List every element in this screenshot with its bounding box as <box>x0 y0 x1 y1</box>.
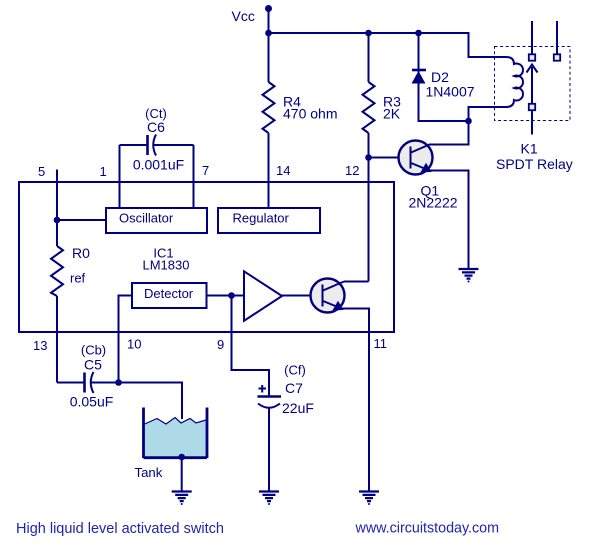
svg-text:www.circuitstoday.com: www.circuitstoday.com <box>355 521 500 537</box>
svg-text:C5: C5 <box>84 357 102 373</box>
svg-text:SPDT Relay: SPDT Relay <box>496 156 573 172</box>
svg-text:470 ohm: 470 ohm <box>283 106 337 122</box>
svg-text:C6: C6 <box>147 119 165 135</box>
svg-text:R0: R0 <box>72 245 90 261</box>
svg-text:11: 11 <box>374 336 388 351</box>
svg-text:2N2222: 2N2222 <box>409 195 458 211</box>
svg-text:(Cb): (Cb) <box>81 343 106 358</box>
svg-text:14: 14 <box>276 163 290 178</box>
svg-text:22uF: 22uF <box>282 400 314 416</box>
svg-text:1: 1 <box>100 164 107 179</box>
svg-text:0.05uF: 0.05uF <box>70 394 114 410</box>
svg-text:7: 7 <box>202 163 209 178</box>
svg-text:0.001uF: 0.001uF <box>133 157 184 173</box>
svg-text:Detector: Detector <box>144 286 194 301</box>
svg-text:Tank: Tank <box>135 465 163 480</box>
svg-text:High liquid level activated sw: High liquid level activated switch <box>16 521 224 537</box>
svg-text:Regulator: Regulator <box>233 211 290 226</box>
svg-text:12: 12 <box>345 163 359 178</box>
svg-text:(Cf): (Cf) <box>284 363 306 378</box>
svg-text:Vcc: Vcc <box>232 8 255 24</box>
svg-text:9: 9 <box>217 337 224 352</box>
svg-text:2K: 2K <box>383 106 401 122</box>
svg-text:ref: ref <box>70 271 86 286</box>
svg-text:K1: K1 <box>521 141 538 157</box>
svg-text:13: 13 <box>33 338 47 353</box>
svg-text:1N4007: 1N4007 <box>426 84 475 100</box>
svg-text:LM1830: LM1830 <box>143 258 190 273</box>
svg-text:Oscillator: Oscillator <box>119 211 174 226</box>
svg-text:10: 10 <box>127 337 141 352</box>
svg-text:C7: C7 <box>285 380 303 396</box>
svg-text:5: 5 <box>38 164 45 179</box>
